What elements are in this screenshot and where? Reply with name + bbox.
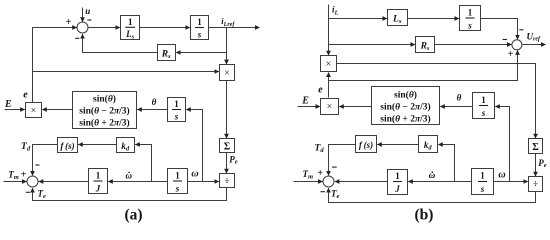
block sin functions (a) bbox=[73, 92, 137, 129]
svg-text:×: × bbox=[326, 59, 332, 70]
label e bbox=[23, 89, 28, 100]
integrator block 1/s (omega, a) bbox=[168, 169, 188, 194]
svg-text:×: × bbox=[31, 105, 37, 116]
label iL bbox=[332, 4, 339, 16]
label minus above S2 bbox=[35, 164, 39, 166]
svg-text:sin(θ − 2π/3): sin(θ − 2π/3) bbox=[79, 106, 129, 117]
label Pe (a) bbox=[229, 154, 238, 165]
wire sigma to divider, node Pe (b) bbox=[535, 154, 537, 177]
label omega (b) bbox=[498, 170, 505, 181]
svg-text:E: E bbox=[4, 99, 12, 110]
wire u input bbox=[82, 8, 84, 22]
block Ls (b) bbox=[388, 10, 408, 26]
block 1/j (a) bbox=[89, 169, 108, 194]
svg-text:(b): (b) bbox=[415, 206, 434, 223]
wire Ls to integrator bbox=[408, 18, 459, 20]
label Td (b) bbox=[315, 143, 325, 154]
wire iL to block Ls bbox=[329, 18, 387, 20]
wire Tm input bbox=[4, 181, 27, 183]
wire 1/Ls to integrator 1/s bbox=[140, 27, 190, 29]
multiplier X3 bbox=[321, 56, 337, 72]
wire e branch to multiplier X2 bbox=[33, 71, 219, 73]
block f(s) (a) bbox=[58, 138, 78, 153]
label Te (b) bbox=[331, 188, 340, 200]
svg-text:×: × bbox=[224, 68, 230, 79]
svg-text:s: s bbox=[481, 108, 486, 118]
multiplier X4 bbox=[321, 99, 339, 115]
svg-text:1: 1 bbox=[468, 7, 473, 17]
label Pe (b) bbox=[538, 158, 547, 169]
wire Td from f(s) to S2 top bbox=[33, 145, 58, 176]
svg-text:sin(θ): sin(θ) bbox=[394, 89, 417, 100]
svg-text:1: 1 bbox=[197, 17, 202, 27]
wire omega line to divider (b) bbox=[494, 181, 528, 183]
block kd (b) bbox=[419, 136, 438, 153]
wire Td from f(s) to S4 top (b) bbox=[329, 145, 356, 176]
label minus at S3 left bbox=[503, 39, 507, 41]
wire iL input vertical bbox=[328, 5, 330, 56]
wire theta feed from omega line (b) bbox=[495, 107, 509, 182]
wire Rs return to S1 bottom bbox=[83, 34, 158, 52]
wire 1/j to S4 bbox=[335, 181, 388, 183]
block Rs (a) bbox=[158, 45, 176, 61]
integrator block 1/s (theta, b) bbox=[473, 93, 495, 119]
label (b) bbox=[415, 206, 434, 223]
block kd (a) bbox=[117, 138, 135, 153]
summing junction S2 bbox=[27, 176, 38, 187]
svg-text:u: u bbox=[85, 6, 90, 16]
svg-text:s: s bbox=[480, 184, 485, 194]
divider block (a) bbox=[220, 174, 235, 188]
wire kd feed (b) bbox=[438, 145, 454, 182]
block 1/Ls bbox=[121, 16, 140, 41]
wire sin block to X1 bbox=[42, 109, 72, 111]
wire kd feed from omega-dot line bbox=[135, 145, 151, 182]
svg-text:1: 1 bbox=[96, 170, 101, 180]
label Tm (b) bbox=[303, 169, 314, 181]
wire Uref output bbox=[523, 44, 546, 46]
label theta (a) bbox=[152, 97, 157, 107]
svg-text:e: e bbox=[23, 89, 28, 100]
wire kd to f(s) bbox=[78, 144, 116, 146]
wire e branch to S3 bottom bbox=[329, 50, 518, 80]
wire integrator to sin block bbox=[137, 109, 167, 111]
svg-text:1: 1 bbox=[175, 170, 180, 180]
wire e feedback up to summing input bbox=[33, 28, 77, 103]
label minus below S2 bbox=[26, 191, 30, 193]
label omega (a) bbox=[191, 169, 198, 180]
block Rs (b) bbox=[416, 37, 435, 53]
svg-text:sin(θ + 2π/3): sin(θ + 2π/3) bbox=[380, 114, 430, 125]
label (a) bbox=[124, 206, 142, 223]
wire Te feedback bottom bbox=[33, 188, 227, 201]
wire E input (b) bbox=[298, 106, 320, 108]
label minus of u input bbox=[87, 19, 91, 21]
integrator block 1/s (top, b) bbox=[460, 6, 481, 31]
svg-text:÷: ÷ bbox=[533, 179, 538, 189]
integrator block 1/s (top, a) bbox=[191, 16, 209, 40]
svg-text:s: s bbox=[197, 29, 202, 39]
label E (b) bbox=[301, 96, 309, 107]
svg-text:e: e bbox=[318, 85, 323, 96]
label minus at S3 top bbox=[519, 29, 523, 31]
label + at S4 bbox=[317, 168, 323, 179]
label Te (a) bbox=[38, 188, 47, 200]
svg-text:1: 1 bbox=[128, 17, 133, 27]
svg-text:1: 1 bbox=[481, 95, 486, 105]
svg-text:ω: ω bbox=[498, 170, 505, 181]
svg-text:1: 1 bbox=[174, 99, 179, 109]
label omega-dot (b) bbox=[429, 170, 436, 180]
svg-text:÷: ÷ bbox=[225, 176, 230, 186]
wire Rs to S3 left bbox=[435, 44, 512, 46]
svg-text:s: s bbox=[467, 20, 472, 30]
svg-text:f (s): f (s) bbox=[359, 140, 373, 150]
label iLref bbox=[221, 16, 235, 28]
label Uref bbox=[527, 31, 541, 42]
svg-text:sin(θ − 2π/3): sin(θ − 2π/3) bbox=[380, 102, 430, 113]
wire feed to resistor block Rs bbox=[176, 52, 226, 54]
wire X3 output to sigma (b) bbox=[337, 64, 536, 139]
wire integrator to sin block (b) bbox=[440, 106, 472, 108]
wire X2 to sigma block bbox=[226, 81, 228, 139]
label Td (a) bbox=[21, 142, 31, 153]
label minus above S4 bbox=[332, 166, 337, 168]
svg-text:1: 1 bbox=[395, 171, 400, 181]
label u bbox=[85, 6, 90, 16]
svg-text:ω: ω bbox=[191, 169, 198, 180]
block f(s) (b) bbox=[356, 136, 377, 153]
label minus below S1 bbox=[75, 37, 79, 39]
label theta (b) bbox=[457, 93, 462, 103]
wire sin block to X4 bbox=[339, 106, 371, 108]
integrator block 1/s (theta, a) bbox=[168, 98, 186, 122]
svg-text:sin(θ): sin(θ) bbox=[93, 94, 116, 105]
wire omega-dot line bbox=[108, 181, 167, 183]
label omega-dot (a) bbox=[126, 170, 133, 180]
block sin functions (b) bbox=[372, 87, 440, 125]
label minus below S4 bbox=[321, 191, 325, 193]
svg-text:θ: θ bbox=[457, 93, 462, 103]
svg-text:+: + bbox=[66, 17, 72, 28]
label Tm (a) bbox=[8, 169, 19, 181]
block 1/j (b) bbox=[388, 170, 408, 195]
integrator block 1/s (omega, b) bbox=[472, 169, 494, 195]
wire output iLref bbox=[209, 27, 260, 29]
svg-text:J: J bbox=[95, 183, 101, 193]
wire 1/j to S2 bbox=[39, 181, 89, 183]
svg-text:E: E bbox=[301, 96, 309, 107]
summing junction S1 bbox=[77, 22, 88, 33]
svg-text:+: + bbox=[508, 49, 514, 60]
svg-text:s: s bbox=[175, 183, 180, 193]
svg-text:f (s): f (s) bbox=[60, 141, 74, 151]
svg-text:J: J bbox=[394, 184, 400, 194]
wire sigma to divider, node Pe bbox=[226, 153, 228, 174]
svg-text:sin(θ + 2π/3): sin(θ + 2π/3) bbox=[79, 118, 129, 129]
wire e up into X3 bbox=[328, 73, 330, 98]
svg-text:s: s bbox=[174, 111, 179, 121]
multiplier X2 bbox=[220, 65, 235, 81]
svg-text:Σ: Σ bbox=[224, 142, 231, 153]
wire kd to f(s) (b) bbox=[377, 144, 418, 146]
svg-text:1: 1 bbox=[480, 170, 485, 180]
wire omega-dot line (b) bbox=[408, 181, 471, 183]
wire theta feed from omega line bbox=[186, 110, 202, 182]
label + at S2 bbox=[21, 170, 27, 181]
svg-text:+: + bbox=[317, 168, 323, 179]
svg-text:×: × bbox=[327, 101, 333, 112]
label + below S3 bbox=[508, 49, 514, 60]
label E bbox=[4, 99, 12, 110]
svg-text:θ: θ bbox=[152, 97, 157, 107]
wire E input bbox=[5, 109, 25, 111]
block sigma (a) bbox=[220, 139, 235, 153]
summing junction S3 bbox=[512, 40, 522, 50]
divider block (b) bbox=[529, 177, 543, 192]
wire S1 to block 1/Ls bbox=[89, 27, 120, 29]
wire pickoff down to multiplier X2 bbox=[226, 28, 228, 65]
block sigma (b) bbox=[529, 139, 543, 154]
label + at summing junction S1 bbox=[66, 17, 72, 28]
label e (b) bbox=[318, 85, 323, 96]
svg-text:+: + bbox=[21, 170, 27, 181]
wire iL to block Rs (b) bbox=[329, 44, 415, 46]
summing junction S4 bbox=[323, 176, 334, 187]
svg-text:Σ: Σ bbox=[532, 142, 539, 153]
svg-text:(a): (a) bbox=[124, 206, 142, 223]
wire Te feedback bottom (b) bbox=[329, 188, 536, 202]
multiplier X1 bbox=[26, 103, 42, 118]
wire omega line to divider bbox=[188, 181, 219, 183]
wire integrator to S3 top bbox=[481, 19, 518, 40]
wire Tm input (b) bbox=[294, 181, 323, 183]
